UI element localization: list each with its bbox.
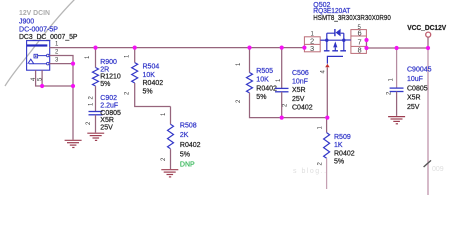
wire pin3 <box>49 63 73 65</box>
svg-text:HSMT8_3R30X3R30X0R90: HSMT8_3R30X3R30X0R90 <box>313 15 391 22</box>
svg-text:VCC_DC12V: VCC_DC12V <box>407 25 446 32</box>
svg-text:5%: 5% <box>256 94 266 101</box>
svg-text:1: 1 <box>161 112 167 116</box>
svg-text:2K: 2K <box>180 132 189 139</box>
svg-text:12V DCIN: 12V DCIN <box>19 10 50 17</box>
junction at rail / R504 <box>133 46 137 50</box>
watermark slash mark <box>424 160 431 167</box>
wire VCC vertical <box>427 37 429 48</box>
junction Q502 output upper <box>364 38 368 42</box>
svg-text:DNP: DNP <box>180 161 195 168</box>
svg-text:1: 1 <box>85 55 91 59</box>
svg-text:3: 3 <box>310 44 314 53</box>
svg-text:X5R: X5R <box>100 117 114 124</box>
wire Q502 output to VCC <box>367 40 428 48</box>
junction Q502 output lower <box>364 46 368 50</box>
svg-text:5%: 5% <box>180 152 190 159</box>
svg-text:1: 1 <box>276 78 282 82</box>
svg-text:2R: 2R <box>100 66 109 73</box>
capacitor C90045 <box>387 48 432 116</box>
resistor R504 <box>125 48 171 107</box>
svg-text:5%: 5% <box>334 159 344 166</box>
svg-text:25V: 25V <box>292 96 305 103</box>
svg-text:R505: R505 <box>256 68 273 75</box>
svg-text:R0402: R0402 <box>256 85 277 92</box>
svg-text:C90045: C90045 <box>407 67 432 74</box>
svg-text:1: 1 <box>55 42 59 48</box>
capacitor C506 <box>275 48 313 118</box>
capacitor C902 <box>86 95 121 132</box>
svg-text:1: 1 <box>89 102 95 106</box>
connector J900 body <box>27 41 50 71</box>
svg-text:J900: J900 <box>19 19 34 26</box>
svg-text:1: 1 <box>318 126 324 130</box>
svg-text:1K: 1K <box>334 142 343 149</box>
svg-text:1: 1 <box>125 54 131 58</box>
svg-text:2: 2 <box>318 162 324 166</box>
svg-text:2: 2 <box>55 50 59 56</box>
svg-text:X5R: X5R <box>407 95 421 102</box>
resistor R900 <box>85 48 121 112</box>
resistor R505 <box>236 48 327 118</box>
svg-text:DC3_DC_0007_5P: DC3_DC_0007_5P <box>19 34 78 41</box>
svg-text:s blog..: s blog.. <box>293 168 328 175</box>
wire main 12V rail <box>49 47 304 49</box>
svg-text:R1210: R1210 <box>100 74 121 81</box>
svg-text:25V: 25V <box>100 124 113 131</box>
junction VCC wire / vertical net <box>426 46 430 50</box>
watermark arc <box>5 0 76 86</box>
svg-text:R0402: R0402 <box>334 150 355 157</box>
transistor Q502 left pin box <box>304 32 320 54</box>
svg-text:R504: R504 <box>143 64 160 71</box>
transistor Q502 right pin box <box>351 25 367 55</box>
svg-text:6: 6 <box>358 28 362 37</box>
junction connector pins 2-3 <box>71 62 75 66</box>
resistor R508 <box>161 107 201 170</box>
junction at rail / Q502 pin box <box>302 46 306 50</box>
Q502 symbol junction dots <box>325 39 328 42</box>
wire gate drop <box>326 67 328 117</box>
svg-text:C0805: C0805 <box>100 110 121 117</box>
svg-text:R0402: R0402 <box>143 80 164 87</box>
Q502 gate pin 4 marker <box>325 64 329 68</box>
wire pin2 <box>49 56 73 64</box>
junction at rail / C506 <box>280 46 284 50</box>
svg-text:4: 4 <box>321 70 327 74</box>
svg-text:10K: 10K <box>143 72 156 79</box>
ground G4 <box>388 117 405 124</box>
junction at rail / R505 <box>247 46 251 50</box>
ground G1 <box>65 140 82 147</box>
wire connector bottom pins <box>36 70 73 86</box>
svg-text:C0402: C0402 <box>292 105 313 112</box>
svg-text:1: 1 <box>389 78 395 82</box>
svg-text:3: 3 <box>55 58 59 64</box>
svg-text:X5R: X5R <box>292 87 306 94</box>
junction at rail / R900 <box>93 46 97 50</box>
junction ground wire <box>71 84 75 88</box>
svg-text:2: 2 <box>89 96 95 100</box>
svg-text:1: 1 <box>236 62 242 66</box>
junction connector pins 4-5 <box>40 84 44 88</box>
Q502 bulk arrow <box>333 41 337 47</box>
junction VCC wire / C90045 <box>395 46 399 50</box>
op-amp n/a : transistor Q502 MOSFET symbol <box>320 33 350 63</box>
svg-text:R509: R509 <box>334 134 351 141</box>
wire ground drop <box>72 64 74 140</box>
junction gate net / R509 <box>325 116 329 120</box>
svg-text:8: 8 <box>358 46 362 55</box>
Q502 body diode <box>334 29 340 37</box>
ground G3 <box>161 170 178 177</box>
resistor R509 <box>318 118 355 189</box>
svg-text:10uF: 10uF <box>407 76 423 83</box>
svg-text:2: 2 <box>86 121 92 125</box>
svg-text:2: 2 <box>236 99 242 103</box>
svg-text:R508: R508 <box>180 123 197 130</box>
svg-text:2: 2 <box>161 157 167 161</box>
svg-text:10K: 10K <box>256 77 269 84</box>
svg-text:C506: C506 <box>292 70 309 77</box>
junction gate net / C506 <box>280 116 284 120</box>
svg-text:C902: C902 <box>100 95 117 102</box>
svg-text:009: 009 <box>432 166 444 173</box>
svg-text:25V: 25V <box>407 104 420 111</box>
svg-text:R0402: R0402 <box>180 142 201 149</box>
svg-text:10nF: 10nF <box>292 79 308 86</box>
svg-text:5%: 5% <box>100 81 110 88</box>
svg-text:5%: 5% <box>143 88 153 95</box>
ground G2 <box>87 133 104 140</box>
svg-text:C0805: C0805 <box>407 85 428 92</box>
svg-text:2: 2 <box>125 91 131 95</box>
svg-text:2.2uF: 2.2uF <box>100 103 118 110</box>
svg-text:DC-0007-5P: DC-0007-5P <box>19 27 58 34</box>
svg-text:R900: R900 <box>100 59 117 66</box>
svg-text:2: 2 <box>282 103 288 107</box>
